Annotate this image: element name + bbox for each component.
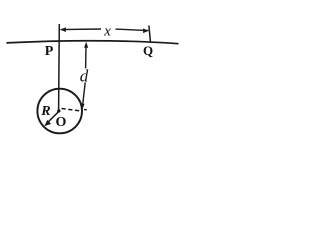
dashed radius line from O to the right (62, 109, 82, 112)
svg-text:P: P (45, 44, 54, 59)
dimension arrowhead left (60, 27, 66, 32)
svg-text:O: O (56, 115, 67, 130)
svg-text:R: R (40, 104, 50, 119)
short dash right of the d arrow tip (84, 109, 87, 111)
d dimension: up arrowhead (84, 42, 88, 48)
d dimension: lower shaft (83, 82, 85, 104)
radius arrowhead (44, 120, 51, 126)
d dimension: upper shaft (85, 47, 87, 68)
vertical line from dimension tick through P down to centre O (58, 24, 61, 111)
right tick at Q (149, 25, 151, 41)
dimension arrowhead right (143, 28, 149, 33)
svg-text:x: x (103, 23, 111, 39)
dimension line x, right segment (116, 29, 149, 31)
d dimension: down arrowhead (80, 103, 84, 109)
svg-text:Q: Q (143, 43, 153, 58)
centre dot at O (57, 109, 60, 112)
svg-text:d: d (80, 67, 89, 86)
dimension line x, left segment (61, 28, 102, 31)
line PQ (main horizontal surface line) (6, 41, 178, 44)
radius arrow R shaft (47, 111, 59, 123)
circle: sphere of radius R centred at O (37, 89, 82, 134)
